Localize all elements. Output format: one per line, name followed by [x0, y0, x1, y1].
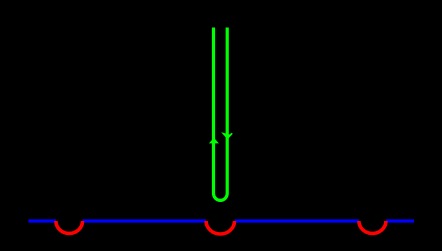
wire: real axis segment 3 (blue): [235, 219, 359, 222]
node: left pole indentation (red semicircle): [56, 221, 83, 233]
wire: real axis segment 4 (blue): [386, 219, 414, 222]
node: middle pole indentation (red semicircle): [206, 221, 234, 234]
node: down arrow on right branch: [223, 133, 232, 138]
wire: real axis segment 2 (blue): [82, 219, 206, 222]
wire: real axis segment 1 (blue): [29, 219, 57, 222]
wire: green hairpin contour: [214, 28, 228, 201]
node: up arrow on left branch: [209, 138, 219, 144]
node: right pole indentation (red semicircle): [359, 221, 386, 233]
